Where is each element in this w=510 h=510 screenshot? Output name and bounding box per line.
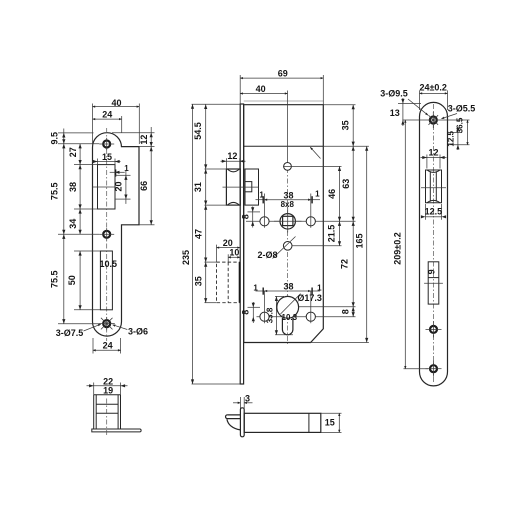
vertical centerline through spindle [287,168,289,344]
dim 1 right (top group) [311,199,320,201]
svg-text:24: 24 [102,110,112,120]
spindle 8x8 square [283,216,293,225]
plate vertical centerline [106,128,108,341]
svg-text:8: 8 [241,310,251,315]
svg-text:3-Ø6: 3-Ø6 [128,326,148,336]
dimension chain arrowheads [62,99,459,388]
svg-text:75.5: 75.5 [50,183,60,201]
dim 12.5 (below window) [426,216,442,218]
svg-text:8: 8 [340,309,350,314]
deadbolt inner hidden line [227,262,229,303]
euro cylinder circle [277,296,299,318]
svg-text:34: 34 [68,219,78,229]
strike box flange [92,429,141,432]
latch bolt top dish [227,169,239,172]
strike box outline [94,394,121,396]
horizontal centerline spindle row [246,220,356,222]
svg-text:19: 19 [103,386,113,396]
O17.3 diagonal [281,294,301,314]
svg-text:1: 1 [259,191,264,200]
middle screw hole [430,326,437,333]
dim 15 [321,412,342,414]
svg-text:20: 20 [114,181,124,191]
horizontal centerline lower holes row [257,316,356,318]
euro cylinder narrow part [282,318,293,335]
rail inner line [308,413,310,432]
left view horizontal ticks [58,132,94,134]
svg-text:66: 66 [139,181,149,191]
middle inner dim column 54.5 / 31 / 47 / 35 [205,104,207,302]
screw hole top [103,141,110,148]
svg-text:10.5: 10.5 [100,259,118,269]
latch bevel curve [227,419,240,430]
svg-text:38: 38 [283,282,293,292]
faceplate section [240,408,244,437]
svg-text:40: 40 [111,98,121,108]
svg-text:24: 24 [103,340,113,350]
cylinder slot [428,262,439,304]
screw hole bottom with cross ticks [103,320,110,327]
svg-text:36.5: 36.5 [456,117,465,133]
svg-text:35: 35 [193,276,203,286]
dim 13 [402,98,404,126]
latch window centerline [93,186,116,188]
dim 20 (window) [125,171,127,204]
latch centerline [223,186,259,188]
right dim col 165 [366,146,368,342]
follower inner box [245,182,252,192]
dim 40 [240,93,287,95]
svg-text:209±0.2: 209±0.2 [393,232,403,264]
svg-text:12: 12 [428,147,438,157]
latch bolt nose [226,415,241,419]
svg-text:3: 3 [245,394,250,404]
dim 38 bottom [265,290,311,292]
plate centerline [433,104,435,384]
dim 1 right (bottom group) [311,290,320,292]
dim 22 [87,385,128,387]
strike box centerline [106,399,108,437]
svg-text:15: 15 [325,417,335,427]
right dim col 46 / 21.5 [339,166,341,245]
svg-text:35: 35 [341,120,351,130]
svg-text:9: 9 [426,269,436,274]
svg-text:3-Ø9.5: 3-Ø9.5 [380,89,408,99]
svg-text:72: 72 [340,259,350,269]
svg-text:2-Ø8: 2-Ø8 [257,250,277,260]
dim 10 (deadbolt) [228,256,240,258]
2-O8 leader [273,237,296,259]
left inner dim column 27 / 38 / 34 / 50 [79,144,81,235]
svg-text:40: 40 [256,84,266,94]
dim 15 [92,161,121,163]
dim 38 with 8x8 label [265,199,311,201]
left outer dim column 9.5 / 75.5 / 75.5 [63,129,65,324]
svg-text:1: 1 [317,283,322,292]
bottom screw hole [430,365,437,372]
dim 40 [93,106,140,108]
window 1mm lip bar [114,169,116,176]
middle left dim column 235 [192,104,194,384]
svg-text:12.5: 12.5 [446,130,455,146]
svg-text:1: 1 [253,283,258,292]
svg-text:8x8: 8x8 [281,200,295,209]
latch bolt bottom dish [227,202,239,205]
svg-text:21.5: 21.5 [326,225,336,243]
dim 8 (bottom left) [252,302,254,323]
top screw hole [430,117,437,124]
latch bolt [226,169,240,205]
dim 24 bottom [92,338,94,354]
svg-text:47: 47 [193,229,203,239]
dim 8 (top left) [252,207,254,228]
dim 1 (window lip) [110,171,125,173]
svg-text:165: 165 [354,233,364,248]
svg-text:12.5: 12.5 [425,206,443,216]
dim 69 [240,77,323,79]
top hole [284,163,292,171]
svg-text:38: 38 [283,190,293,200]
case feature line [244,145,324,147]
lower slot rect [100,251,112,310]
svg-text:69: 69 [278,69,288,79]
spindle circle [280,214,295,229]
svg-text:3-Ø5.5: 3-Ø5.5 [448,104,476,114]
dim 33.8 [275,296,277,334]
lock case outline [244,105,324,343]
strike plate outline [93,133,140,336]
svg-text:3-Ø7.5: 3-Ø7.5 [56,328,84,338]
svg-text:12: 12 [227,151,237,161]
svg-text:15: 15 [102,152,112,162]
latch tail rail [244,413,321,432]
face plate outline [420,102,448,386]
faceplate bar [240,104,243,384]
latch window (right view) [426,170,442,203]
svg-text:1: 1 [124,164,129,173]
svg-text:10.3: 10.3 [282,313,298,322]
dim 12 (latch window) [421,157,447,159]
svg-text:24±0.2: 24±0.2 [419,82,446,92]
svg-text:46: 46 [327,189,337,199]
right dim column 12 / 66 [150,127,152,225]
svg-text:38: 38 [68,182,78,192]
latch window rect [98,165,116,209]
svg-text:54.5: 54.5 [193,122,203,140]
svg-text:63: 63 [341,179,351,189]
dim 12.5 vertical [457,128,459,151]
side hole right (bottom group) [306,312,315,321]
side hole left (top group) [260,217,269,226]
dim 36.5 [467,120,469,145]
dim 12 (latch) [221,160,246,162]
svg-text:27: 27 [68,147,78,157]
deadbolt face thick edge [239,262,241,303]
deadbolt hidden rect [217,262,241,303]
svg-text:12: 12 [139,135,149,145]
svg-text:235: 235 [181,250,191,265]
dim 209+-0.2 [404,120,406,369]
dim 1 left (top group) [256,199,265,201]
svg-text:31: 31 [193,182,203,192]
right dim col 35 / 63 / 72 / 8 [352,105,354,317]
dim 20 (deadbolt) [217,247,241,249]
feature line leader arrow [310,147,320,158]
svg-text:9.5: 9.5 [50,132,60,145]
hole 2-O8 [283,242,292,251]
dim 24 top [93,118,122,120]
screw hole middle [103,231,110,238]
svg-text:10: 10 [229,248,239,258]
top hole centerline row [402,119,469,121]
dim 1 left (bottom group) [256,290,265,292]
svg-text:Ø17.3: Ø17.3 [297,293,322,303]
side hole left (bottom group) [260,312,269,321]
strike box internal lines [96,403,118,405]
svg-text:1: 1 [315,189,320,198]
side hole right (top group) [306,217,315,226]
follower box [245,169,259,205]
dim 24+-0.2 [420,92,448,94]
svg-text:50: 50 [67,275,77,285]
svg-text:75.5: 75.5 [50,270,60,288]
svg-text:8: 8 [241,214,251,219]
strike box inner walls [95,395,97,429]
svg-text:13: 13 [390,108,400,118]
